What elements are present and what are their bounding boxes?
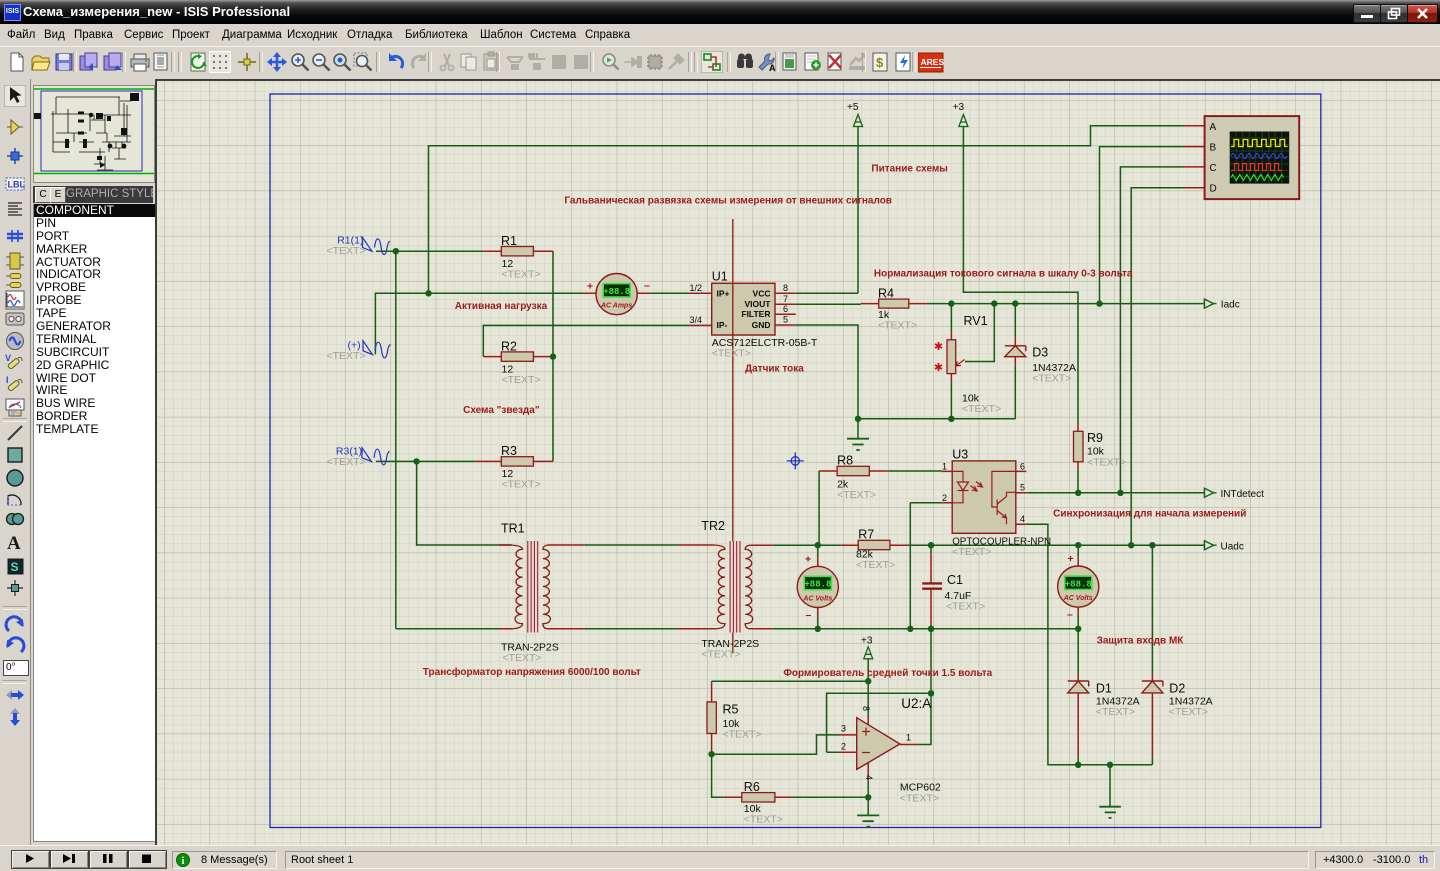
svg-text:AC Volts: AC Volts bbox=[802, 595, 832, 602]
wire opamp pin4 down bbox=[867, 781, 869, 815]
svg-text:i: i bbox=[182, 856, 185, 867]
svg-text:1: 1 bbox=[942, 462, 947, 472]
svg-text:ARES: ARES bbox=[921, 57, 945, 67]
svg-text:<TEXT>: <TEXT> bbox=[327, 245, 366, 257]
opamp U2:A bbox=[857, 718, 900, 770]
diode D2 bbox=[1142, 681, 1163, 693]
svg-text:+3: +3 bbox=[953, 102, 965, 113]
wire volt meter right column bbox=[1077, 545, 1079, 629]
sheet border bbox=[270, 94, 1321, 828]
svg-text:–: – bbox=[1067, 609, 1073, 621]
svg-text:Активная нагрузка: Активная нагрузка bbox=[455, 301, 548, 312]
pin stubs R5 R6 bbox=[712, 684, 793, 797]
potentiometer RV1 wiper arrow bbox=[956, 360, 965, 367]
wire opamp output riser bbox=[918, 545, 931, 744]
wire R6 to opamp gnd rail bbox=[793, 796, 868, 798]
svg-text:TR2: TR2 bbox=[701, 519, 725, 533]
pin stubs R7 R8 R9 bbox=[819, 424, 1078, 546]
potentiometer RV1 body bbox=[947, 340, 956, 374]
scope trace C red bbox=[1231, 164, 1283, 171]
wire +3 to R9 bbox=[963, 127, 1078, 493]
svg-text:U1: U1 bbox=[712, 270, 728, 284]
wire U3 pin5 INTdetect bbox=[1026, 492, 1204, 494]
wire ground drop right bbox=[1109, 765, 1111, 807]
wire U3 pin4 to bottom rail bbox=[1026, 524, 1152, 765]
wire TR2 secondary top to R7 bbox=[773, 544, 840, 546]
svg-text:R3(1): R3(1) bbox=[336, 446, 362, 458]
svg-text:VIOUT: VIOUT bbox=[745, 299, 772, 309]
svg-text:C: C bbox=[1210, 163, 1217, 174]
resistor R8 bbox=[837, 466, 869, 475]
svg-text:Нормализация токового сигнала: Нормализация токового сигнала в шкалу 0-… bbox=[874, 269, 1133, 280]
wire U1 pin7 to R4 bbox=[796, 303, 861, 305]
svg-text:8: 8 bbox=[861, 706, 871, 711]
svg-text:R9: R9 bbox=[1087, 431, 1103, 445]
generator R1(1) bbox=[363, 238, 391, 255]
wire R5 column bbox=[711, 681, 713, 754]
wire R1 node to TR1 primary bottom bbox=[396, 251, 510, 629]
left tool: selector arrow bbox=[4, 85, 26, 107]
ground opamp bbox=[857, 815, 879, 826]
opto U3 body bbox=[952, 461, 1016, 533]
svg-text:R5: R5 bbox=[723, 703, 739, 717]
ground U1 bbox=[847, 439, 869, 450]
svg-text:<TEXT>: <TEXT> bbox=[502, 269, 541, 281]
svg-text:4: 4 bbox=[864, 775, 874, 780]
resistor R6 bbox=[742, 793, 775, 802]
svg-text:Питание схемы: Питание схемы bbox=[871, 164, 947, 175]
wire U3 pin2 to rail bbox=[910, 503, 941, 629]
wire opamp feedback bbox=[827, 693, 931, 752]
wire TR1 secondary to TR2 primary bottom bbox=[585, 628, 678, 630]
wire R3 node to TR1 primary top bbox=[417, 461, 510, 545]
wire R3 input bbox=[376, 460, 475, 462]
svg-text:6: 6 bbox=[1020, 462, 1025, 472]
svg-text:<TEXT>: <TEXT> bbox=[837, 489, 876, 501]
meter AC Volts right bbox=[1058, 566, 1099, 607]
svg-text:Синхронизация для начала изме: Синхронизация для начала измерений bbox=[1053, 509, 1246, 520]
svg-text:D1: D1 bbox=[1096, 682, 1112, 696]
terminal Iadc bbox=[1204, 299, 1216, 308]
svg-text:7: 7 bbox=[783, 294, 788, 304]
pin stubs TR2 bbox=[678, 545, 773, 629]
wire star node bbox=[552, 251, 554, 461]
svg-text:<TEXT>: <TEXT> bbox=[1087, 457, 1126, 469]
wire volt meter left column bbox=[817, 545, 819, 629]
svg-text:6: 6 bbox=[783, 304, 788, 314]
svg-text:U2:A: U2:A bbox=[901, 696, 931, 711]
pin stubs RV1 bbox=[950, 332, 952, 382]
svg-text:<TEXT>: <TEXT> bbox=[502, 374, 541, 386]
svg-text:Iadc: Iadc bbox=[1221, 300, 1240, 311]
svg-text:D3: D3 bbox=[1032, 346, 1048, 360]
svg-text:R8: R8 bbox=[837, 454, 853, 468]
wire net B riser bbox=[1100, 147, 1185, 304]
pin stubs opamp bbox=[839, 717, 918, 781]
svg-text:R2: R2 bbox=[501, 340, 517, 354]
wire D2 branch bbox=[1151, 545, 1153, 765]
power +3 arrow top bbox=[959, 115, 968, 127]
svg-text:IP-: IP- bbox=[717, 320, 728, 330]
svg-text:3: 3 bbox=[841, 724, 846, 734]
ground diodes bbox=[1099, 807, 1121, 818]
svg-text:<TEXT>: <TEXT> bbox=[503, 652, 542, 664]
oscilloscope body bbox=[1205, 116, 1300, 199]
svg-text:GND: GND bbox=[752, 320, 771, 330]
svg-text:✱: ✱ bbox=[934, 341, 943, 353]
pin stubs U3 bbox=[942, 471, 1027, 524]
svg-text:A: A bbox=[1210, 122, 1217, 133]
scope trace B blue bbox=[1231, 154, 1287, 159]
IC U1 ACS712 bbox=[712, 283, 775, 335]
wire R2 to IP- bbox=[483, 325, 689, 356]
svg-text:D2: D2 bbox=[1169, 682, 1185, 696]
wire R7 to Uadc bbox=[908, 544, 1205, 546]
svg-text:Формирователь средней точки 1.: Формирователь средней точки 1.5 вольта bbox=[783, 668, 992, 679]
svg-text:<TEXT>: <TEXT> bbox=[744, 814, 783, 826]
svg-text:Uadc: Uadc bbox=[1221, 542, 1244, 553]
svg-text:INTdetect: INTdetect bbox=[1221, 489, 1265, 500]
svg-text:<TEXT>: <TEXT> bbox=[962, 403, 1001, 415]
svg-text:+3: +3 bbox=[861, 636, 873, 647]
svg-text:+88.8: +88.8 bbox=[1065, 579, 1092, 589]
terminal Uadc bbox=[1204, 541, 1216, 550]
power +5 arrow bbox=[854, 115, 863, 127]
pin stubs TR1 bbox=[499, 545, 584, 629]
svg-text:1/2: 1/2 bbox=[689, 283, 702, 293]
resistor R5 bbox=[707, 702, 716, 734]
svg-text:RV1: RV1 bbox=[964, 314, 988, 328]
wire generator to meter IP+ bbox=[375, 293, 689, 354]
svg-text:V: V bbox=[5, 353, 11, 363]
wire R8 riser bbox=[818, 471, 820, 545]
wire +3 opamp rail bbox=[712, 659, 869, 717]
wire R8 to U3 pin1 bbox=[887, 470, 941, 472]
svg-text:Датчик тока: Датчик тока bbox=[745, 364, 804, 375]
pin stubs scope bbox=[1184, 126, 1205, 188]
wire RV1 top and bottom bbox=[950, 304, 952, 419]
diode D1 bbox=[1068, 681, 1089, 693]
svg-text:<TEXT>: <TEXT> bbox=[1169, 706, 1208, 718]
wire net A probe bbox=[429, 126, 1185, 293]
pin stubs U1 bbox=[689, 293, 796, 325]
svg-text:Гальваническая развязка схемы: Гальваническая развязка схемы измерения … bbox=[564, 196, 892, 207]
transformer TR2 bbox=[714, 541, 753, 633]
wire R5 to R6 column bbox=[712, 754, 724, 797]
svg-text:<TEXT>: <TEXT> bbox=[701, 649, 740, 661]
svg-text:R4: R4 bbox=[878, 287, 894, 301]
svg-text:4: 4 bbox=[1020, 514, 1025, 524]
svg-text:<TEXT>: <TEXT> bbox=[1032, 373, 1071, 385]
svg-text:–: – bbox=[644, 280, 650, 292]
svg-text:AC Amps: AC Amps bbox=[600, 303, 632, 310]
wire RV1 wiper riser bbox=[965, 304, 994, 362]
pin stubs meters bbox=[584, 293, 1078, 616]
scope trace A yellow bbox=[1231, 140, 1288, 147]
wire D1 branch bbox=[1077, 629, 1079, 765]
svg-text:LBL: LBL bbox=[8, 180, 26, 190]
svg-text:Трансформатор напряжения 6000/: Трансформатор напряжения 6000/100 вольт bbox=[423, 666, 641, 678]
junction dots bbox=[393, 248, 399, 254]
origin marker bbox=[787, 452, 804, 469]
svg-text:+: + bbox=[587, 281, 593, 293]
meter AC Volts left bbox=[797, 566, 838, 607]
svg-text:✱: ✱ bbox=[934, 362, 943, 374]
terminal INTdetect bbox=[1204, 488, 1216, 497]
oscilloscope screen bbox=[1230, 132, 1290, 184]
svg-text:D: D bbox=[1210, 184, 1217, 195]
svg-text:<TEXT>: <TEXT> bbox=[900, 793, 939, 805]
svg-text:Схема "звезда": Схема "звезда" bbox=[463, 405, 540, 416]
svg-text:R3: R3 bbox=[501, 444, 517, 458]
resistor R7 bbox=[858, 540, 890, 549]
svg-text:S: S bbox=[11, 560, 19, 574]
transformer TR1 bbox=[510, 541, 550, 633]
svg-text:C1: C1 bbox=[947, 573, 963, 587]
svg-text:<TEXT>: <TEXT> bbox=[952, 546, 991, 558]
svg-text:1: 1 bbox=[906, 733, 911, 743]
opto U3 phototransistor bbox=[992, 471, 1016, 524]
generator (+) bbox=[363, 341, 391, 358]
svg-text:A: A bbox=[7, 533, 21, 553]
pin stubs resistors R1 R2 R3 bbox=[475, 251, 553, 461]
svg-text:+88.8: +88.8 bbox=[603, 287, 630, 297]
meter AC Amps bbox=[596, 274, 637, 315]
wire D3 branch bbox=[1014, 304, 1016, 419]
resistor R3 bbox=[501, 457, 533, 466]
svg-text:<TEXT>: <TEXT> bbox=[712, 348, 751, 360]
svg-text:+: + bbox=[805, 554, 811, 566]
wire Iadc bbox=[927, 303, 1205, 305]
svg-text:5: 5 bbox=[783, 315, 788, 325]
pin stubs D3 bbox=[1014, 337, 1016, 366]
section divider overlay bbox=[732, 283, 734, 335]
svg-text:2: 2 bbox=[942, 493, 947, 503]
svg-text:IP+: IP+ bbox=[717, 288, 730, 298]
resistor R9 bbox=[1074, 431, 1084, 462]
svg-text:R1(1): R1(1) bbox=[337, 235, 363, 247]
svg-text:–: – bbox=[806, 609, 812, 621]
section divider line bbox=[732, 219, 734, 653]
opamp plus minus bbox=[862, 728, 870, 753]
svg-text:B: B bbox=[1210, 143, 1217, 154]
svg-text:U3: U3 bbox=[952, 448, 968, 462]
svg-text:3/4: 3/4 bbox=[689, 315, 702, 325]
svg-text:(+): (+) bbox=[348, 340, 361, 352]
actuator arrows RV1 bbox=[934, 341, 943, 374]
wire R1 input bbox=[376, 250, 483, 252]
svg-text:<TEXT>: <TEXT> bbox=[327, 350, 366, 362]
scope trace D green bbox=[1231, 175, 1284, 181]
svg-text:+88.8: +88.8 bbox=[804, 580, 831, 590]
svg-text:<TEXT>: <TEXT> bbox=[502, 479, 541, 491]
svg-text:<TEXT>: <TEXT> bbox=[1096, 706, 1135, 718]
svg-text:<TEXT>: <TEXT> bbox=[878, 320, 917, 332]
resistor R2 bbox=[501, 352, 533, 361]
resistor R4 bbox=[879, 299, 909, 308]
pin stubs C1 bbox=[930, 554, 932, 626]
pin stubs R4 bbox=[861, 303, 927, 305]
svg-text:+: + bbox=[1068, 553, 1074, 565]
capacitor C1 bbox=[922, 583, 942, 588]
diode D3 bbox=[1005, 346, 1026, 357]
svg-text:R1: R1 bbox=[501, 234, 517, 248]
svg-text:5: 5 bbox=[1020, 483, 1025, 493]
generator R3(1) bbox=[362, 448, 390, 465]
svg-text:FILTER: FILTER bbox=[741, 309, 770, 319]
svg-text:2: 2 bbox=[841, 742, 846, 752]
svg-text:AC Volts: AC Volts bbox=[1063, 595, 1093, 602]
wire U1 pin5 to gnd rail bbox=[796, 325, 1016, 438]
svg-text:$: $ bbox=[876, 55, 884, 70]
wire mid rail 1.5V bbox=[773, 628, 1078, 630]
wire net D riser bbox=[1131, 188, 1184, 546]
svg-text:R7: R7 bbox=[858, 528, 874, 542]
opto U3 LED bbox=[952, 471, 982, 502]
resistor R1 bbox=[501, 247, 533, 256]
power +3 arrow opamp bbox=[864, 647, 873, 659]
wire net C riser bbox=[1120, 167, 1184, 493]
svg-text:<TEXT>: <TEXT> bbox=[856, 559, 895, 571]
wire TR1 secondary to TR2 primary top bbox=[585, 544, 678, 546]
wire opamp pin3 net bbox=[712, 735, 839, 754]
svg-text:<TEXT>: <TEXT> bbox=[723, 729, 762, 741]
svg-text:8: 8 bbox=[783, 283, 788, 293]
svg-text:I: I bbox=[6, 375, 9, 385]
svg-text:R6: R6 bbox=[744, 780, 760, 794]
svg-text:Защита входв МК: Защита входв МК bbox=[1097, 636, 1185, 647]
svg-text:<TEXT>: <TEXT> bbox=[946, 601, 985, 613]
svg-text:TR1: TR1 bbox=[501, 522, 525, 536]
svg-text:<TEXT>: <TEXT> bbox=[327, 456, 366, 468]
svg-text:VCC: VCC bbox=[753, 288, 771, 298]
svg-text:+5: +5 bbox=[847, 102, 859, 113]
wire +5 to U1 VCC bbox=[796, 127, 858, 294]
pin stubs D1 D2 bbox=[1078, 674, 1152, 757]
